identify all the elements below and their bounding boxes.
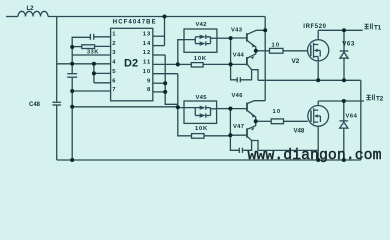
svg-text:10K: 10K bbox=[195, 126, 208, 132]
wire pin9 bbox=[153, 82, 165, 84]
wire V44 base bbox=[231, 63, 247, 65]
diode V42b bbox=[200, 41, 206, 45]
wire pin13/14 riser bbox=[164, 17, 166, 46]
svg-text:14: 14 bbox=[143, 41, 151, 47]
svg-text:V42: V42 bbox=[196, 22, 207, 28]
svg-text:T2: T2 bbox=[376, 95, 384, 102]
node pin9 bbox=[163, 81, 167, 85]
svg-text:V45: V45 bbox=[196, 95, 208, 101]
wire left bus upper bbox=[56, 17, 58, 102]
wire top rail left bbox=[6, 16, 18, 18]
capacitor speedup ch1 bbox=[231, 64, 237, 79]
wire bottom rail bbox=[57, 159, 361, 161]
wire drain line T1 bbox=[318, 29, 362, 31]
svg-text:L2: L2 bbox=[27, 6, 35, 12]
resistor 10 ch1 bbox=[270, 48, 284, 53]
wire pin5 bbox=[94, 72, 111, 74]
wire pin10 riser bbox=[177, 74, 179, 108]
svg-text:T1: T1 bbox=[374, 24, 382, 31]
node under-IC line bbox=[70, 105, 74, 109]
resistor 10K ch2 bbox=[192, 134, 205, 139]
pin numbers left bbox=[112, 31, 116, 93]
node V63 bottom bbox=[342, 78, 346, 82]
svg-text:10: 10 bbox=[273, 109, 282, 115]
svg-text:10: 10 bbox=[272, 42, 281, 48]
node V48 source / bottom rail bbox=[316, 158, 320, 162]
wire pin8 bbox=[153, 91, 165, 93]
wire riser V43 collector bbox=[264, 17, 266, 101]
wire V43 base bbox=[231, 37, 247, 39]
wire pins456 vertical bbox=[93, 64, 95, 83]
transistor V48 MOSFET bbox=[308, 106, 329, 127]
label 到T2 bbox=[366, 94, 374, 100]
capacitor speedup ch2 bbox=[230, 135, 239, 150]
transistor Q V43 bbox=[246, 33, 248, 41]
wire pin4 line bbox=[57, 63, 111, 65]
diode V45a bbox=[200, 106, 206, 110]
svg-text:2: 2 bbox=[112, 41, 115, 47]
wire pin11 bbox=[153, 63, 178, 65]
wire base node ch1 bbox=[230, 38, 232, 64]
node pin5 bbox=[92, 71, 96, 75]
node V43 collector bbox=[263, 28, 267, 32]
wire gate ch2 bbox=[256, 120, 272, 122]
svg-text:V46: V46 bbox=[232, 93, 244, 99]
capacitor timing top bbox=[72, 37, 90, 47]
wire timing bus bbox=[71, 47, 73, 73]
wire pin12/9/8 riser bbox=[165, 55, 178, 104]
svg-text:V44: V44 bbox=[233, 52, 245, 58]
svg-text:10: 10 bbox=[143, 69, 151, 75]
node pin7 bbox=[70, 89, 74, 93]
wire node to 10K2 bbox=[178, 107, 192, 136]
inductor L2 bbox=[18, 11, 48, 16]
svg-text:V43: V43 bbox=[231, 28, 243, 34]
node V64 bottom bbox=[342, 158, 346, 162]
wire V46 base bbox=[230, 108, 246, 110]
transistor V2 MOSFET bbox=[308, 40, 329, 61]
node pin8 bbox=[163, 90, 167, 94]
capacitor timing vertical bbox=[67, 73, 77, 75]
node emitters ch2 bbox=[254, 119, 258, 123]
diode V45b bbox=[200, 113, 206, 117]
svg-text:V64: V64 bbox=[346, 114, 358, 120]
svg-text:HCF4047BE: HCF4047BE bbox=[113, 20, 157, 26]
wire V42 out bbox=[217, 37, 231, 39]
wire under IC bbox=[72, 106, 178, 108]
node V2 source / mid rail bbox=[316, 78, 320, 82]
node timing bus / bottom rail bbox=[70, 158, 74, 162]
diode V63 bbox=[343, 30, 345, 52]
wire pin14 bbox=[153, 45, 165, 47]
node emitters ch1 bbox=[254, 49, 258, 53]
wire pin13 bbox=[153, 35, 165, 37]
label 到T1 bbox=[364, 23, 372, 29]
node V44 base bbox=[229, 62, 233, 66]
wire timing bus lower bbox=[71, 78, 73, 161]
wire base node ch2 bbox=[229, 109, 231, 136]
MOSFET arrows bbox=[251, 44, 318, 131]
diode V64 bbox=[343, 101, 345, 122]
node pin11 bbox=[176, 62, 180, 66]
diode V42a bbox=[200, 35, 206, 39]
wire gate ch1 bbox=[256, 50, 270, 52]
wire pin3 bbox=[72, 54, 110, 56]
capacitor C48 bbox=[52, 101, 61, 103]
diode block V42 bbox=[184, 29, 217, 52]
node V46 base bbox=[228, 107, 232, 111]
wire V47 base bbox=[230, 134, 246, 136]
wire V2 source bbox=[317, 61, 319, 80]
wire pin7 bbox=[72, 90, 110, 92]
wire drain line T2 bbox=[318, 100, 364, 102]
transistor Q V46 bbox=[246, 103, 248, 112]
svg-text:7: 7 bbox=[112, 87, 115, 93]
wire pin6 bbox=[94, 82, 111, 84]
wire mid rail bbox=[258, 79, 361, 81]
wire left bus lower bbox=[56, 106, 58, 161]
diode block V45 bbox=[184, 101, 217, 123]
resistor 10 ch2 bbox=[271, 119, 283, 124]
svg-text:V48: V48 bbox=[294, 129, 305, 135]
svg-text:www.diangon.com: www.diangon.com bbox=[248, 148, 382, 164]
node V47 base bbox=[228, 133, 232, 137]
node 33K left bbox=[70, 45, 74, 49]
wire V45 out bbox=[217, 108, 231, 110]
node V64 top bbox=[342, 99, 346, 103]
wire pin12 bbox=[153, 54, 165, 56]
transistor emitter arrows bbox=[251, 44, 255, 48]
transistor Q V44 bbox=[246, 57, 248, 65]
svg-text:V2: V2 bbox=[292, 58, 300, 65]
wire pin10 bbox=[153, 73, 178, 75]
svg-text:D2: D2 bbox=[124, 58, 138, 70]
svg-text:33K: 33K bbox=[87, 50, 99, 56]
svg-text:11: 11 bbox=[143, 60, 151, 66]
node V43 base bbox=[229, 36, 233, 40]
svg-text:V63: V63 bbox=[342, 41, 355, 48]
resistor 10K ch1 bbox=[178, 63, 192, 65]
wire cap to pin1 bbox=[94, 36, 111, 38]
node pin4/timing bbox=[70, 62, 74, 66]
wire right side vertical bbox=[360, 80, 362, 160]
node top rail / pin13 riser bbox=[163, 15, 167, 19]
svg-text:V47: V47 bbox=[233, 124, 244, 130]
svg-text:C48: C48 bbox=[29, 102, 41, 108]
resistor 33K bbox=[72, 46, 82, 48]
svg-text:IRF520: IRF520 bbox=[303, 24, 326, 30]
wire pin11 riser to V42 bbox=[178, 40, 184, 65]
pin numbers right bbox=[143, 31, 151, 93]
svg-text:10K: 10K bbox=[194, 56, 207, 62]
node V63 top bbox=[342, 28, 346, 32]
svg-text:12: 12 bbox=[143, 50, 151, 56]
svg-text:13: 13 bbox=[143, 31, 151, 37]
wire V47 collector to source bbox=[258, 149, 318, 151]
transistor Q V47 bbox=[246, 128, 248, 137]
wire top rail bbox=[48, 16, 265, 18]
op-amp U1 IC HCF4047BE box bbox=[111, 28, 153, 101]
